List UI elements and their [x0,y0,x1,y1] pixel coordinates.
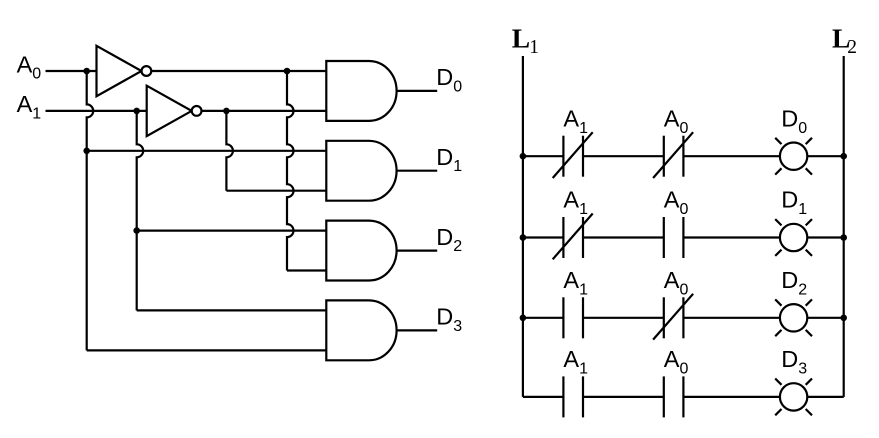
node: junction /A1 line / vertical branch [223,108,230,115]
node: junction A1 input / vertical branch [133,108,140,115]
svg-text:0: 0 [680,281,689,298]
svg-text:A: A [563,105,579,131]
rung 2 wire segments [523,236,564,238]
lamp D0 rung 1 [780,143,807,170]
contact A0 rung 3 (NC) [663,297,665,338]
svg-text:A: A [17,51,33,77]
power rail L2 (right) [843,56,845,397]
svg-text:D: D [436,144,453,170]
AND gate G2 (output D1) [326,141,396,201]
AND gate G4 (output D3) [326,300,396,360]
svg-text:3: 3 [453,318,462,335]
wire /A0 to gate G3 bottom input [287,269,326,271]
wire G4 output to D3 [397,329,438,331]
wire A1 to gate G3 top input [137,230,327,232]
lamp D2 rung 3 [780,304,807,331]
wire A1 branch vertical (hops A0 line) [137,111,144,311]
svg-text:0: 0 [453,78,462,95]
svg-text:1: 1 [579,120,588,137]
svg-text:1: 1 [579,201,588,218]
contact A1 rung 4 (NO) [562,376,564,417]
svg-text:A: A [664,346,680,372]
wire /A1 branch vertical (hops A0 line) [226,111,233,191]
contact A1 rung 1 (NC) [562,136,564,177]
rung 1 wire segments [523,155,564,157]
wire U2 output /A1 to gate G1 bottom input [202,110,327,112]
inverter U2 (A1) [147,86,192,136]
wire A0 input to inverter U1 [46,70,97,72]
AND gate G1 (output D0) [326,61,396,121]
svg-text:A: A [563,346,579,372]
contact A1 rung 3 (NO) [562,297,564,338]
node: L2 rail junction rung 2 [840,234,847,241]
rung 4 wire segments [523,396,564,398]
svg-text:2: 2 [847,37,857,58]
svg-text:0: 0 [32,66,41,83]
svg-text:1: 1 [529,37,539,58]
svg-text:3: 3 [798,361,807,378]
wire A0 to gate G4 bottom input [87,349,327,351]
node: junction A0 input / vertical branch [83,68,90,75]
wire /A1 to gate G2 bottom input [226,190,326,192]
svg-text:1: 1 [453,158,462,175]
svg-text:A: A [664,105,680,131]
node: junction A1 vertical / G3 top wire [133,227,140,234]
svg-text:D: D [781,346,798,372]
svg-text:L: L [512,22,530,53]
contact A0 rung 4 (NO) [663,376,665,417]
svg-text:A: A [664,267,680,293]
svg-text:D: D [781,187,798,213]
svg-text:1: 1 [32,105,41,122]
wire G3 output to D2 [397,250,438,252]
wire A0 to gate G2 top input [87,150,327,152]
svg-text:A: A [17,91,33,117]
svg-text:0: 0 [680,120,689,137]
wire /A0 branch vertical (hops 4 lines) [287,71,294,271]
svg-text:2: 2 [798,281,807,298]
svg-text:1: 1 [798,201,807,218]
rung 3 wire segments [523,317,564,319]
wire A1 to gate G4 top input [137,309,327,311]
svg-text:D: D [781,267,798,293]
contact A0 rung 2 (NO) [663,217,665,258]
node: L1 rail junction rung 3 [520,315,527,322]
node: L1 rail junction rung 2 [520,234,527,241]
lamp D1 rung 2 [780,224,807,251]
contact A1 rung 2 (NC) [562,217,564,258]
node: junction A0 vertical / G2 top wire [83,148,90,155]
svg-text:0: 0 [680,361,689,378]
svg-text:A: A [563,187,579,213]
wire A0 branch vertical (hops A1 line) [87,71,94,350]
svg-text:1: 1 [579,281,588,298]
wire G2 output to D1 [397,170,438,172]
svg-text:1: 1 [579,361,588,378]
wire A1 input to inverter U2 [46,110,147,112]
node: L2 rail junction rung 1 [840,153,847,160]
svg-text:D: D [436,64,453,90]
AND gate G3 (output D2) [326,221,396,281]
contact A0 rung 1 (NC) [663,136,665,177]
svg-text:A: A [563,267,579,293]
wire U1 output /A0 to gate G1 top input [151,70,326,72]
node: junction /A0 line / vertical branch [284,68,291,75]
node: L2 rail junction rung 3 [840,315,847,322]
svg-text:2: 2 [453,238,462,255]
svg-text:D: D [436,304,453,330]
svg-text:A: A [664,187,680,213]
inverter U1 (A0) [97,46,142,96]
lamp D3 rung 4 [780,383,807,410]
svg-text:D: D [781,105,798,131]
power rail L1 (left) [522,56,524,397]
svg-text:0: 0 [798,120,807,137]
wire G1 output to D0 [397,90,438,92]
node: L1 rail junction rung 1 [520,153,527,160]
svg-text:0: 0 [680,201,689,218]
svg-text:D: D [436,224,453,250]
